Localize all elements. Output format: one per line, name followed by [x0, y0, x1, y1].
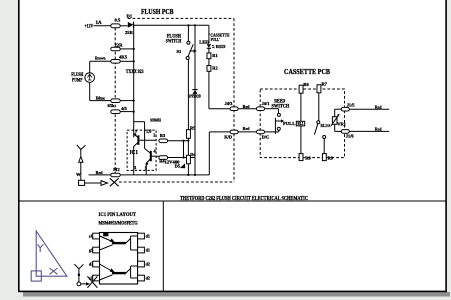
D5 label	[175, 164, 181, 169]
svg-text:D5: D5	[175, 164, 181, 169]
reed switch	[275, 113, 284, 134]
connector oval blue	[90, 99, 134, 103]
IC1 label	[130, 149, 139, 156]
title separator line	[18, 200, 446, 202]
RL1/A label	[321, 123, 332, 128]
VR1	[331, 109, 340, 131]
R9 label	[328, 156, 334, 161]
output wire 1	[349, 108, 389, 110]
FLUSH PUMP label	[71, 73, 83, 84]
svg-text:M2: M2	[113, 167, 119, 172]
resistor R5	[187, 130, 191, 139]
FLUSH PCB label	[141, 8, 174, 16]
svg-text:Red: Red	[375, 126, 382, 131]
bottom collector wire	[120, 174, 209, 176]
svg-text:R3: R3	[160, 133, 166, 138]
connector oval +12V	[111, 24, 120, 28]
svg-text:VR1: VR1	[337, 122, 346, 127]
63k label	[108, 103, 115, 108]
diode D1	[128, 22, 134, 28]
R7 label	[322, 82, 328, 87]
svg-text:R8: R8	[305, 156, 311, 161]
pin 1,6 label	[146, 129, 152, 134]
Brown label	[95, 55, 106, 60]
svg-text:25R: 25R	[125, 30, 134, 35]
ucs icon mid Y axis	[77, 145, 86, 181]
IC pin g1	[89, 247, 100, 253]
branch to transistor2 collector	[134, 122, 145, 149]
IC pin d2 left	[89, 261, 100, 267]
rail below D4	[187, 164, 189, 175]
pin 4 label	[154, 149, 157, 154]
wire +12V feed	[94, 25, 112, 27]
ucs icon mid origin box and X axis	[79, 180, 108, 185]
wire connector to lower rail	[209, 132, 230, 175]
resistor R7	[317, 85, 321, 121]
svg-text:1,6: 1,6	[146, 129, 152, 134]
Red output label 1	[375, 104, 382, 109]
relay contact RL1/A	[314, 121, 325, 154]
svg-text:PUMP: PUMP	[72, 79, 83, 84]
svg-text:CASSETTE PCB: CASSETTE PCB	[284, 68, 330, 76]
svg-text:d1: d1	[146, 248, 150, 253]
D/C label	[262, 135, 270, 140]
svg-text:d2: d2	[146, 262, 150, 267]
svg-text:1A: 1A	[96, 21, 103, 26]
12V400 label	[165, 159, 181, 164]
svg-text:K/D: K/D	[224, 135, 232, 140]
MSM4953 label	[150, 118, 161, 123]
svg-text:R6: R6	[303, 82, 309, 87]
transistor Q1	[134, 133, 156, 175]
J1/5 label	[347, 103, 356, 108]
pin 5 label	[145, 166, 148, 171]
Red wire label top	[243, 104, 250, 109]
svg-text:g1: g1	[89, 248, 93, 253]
D4 label	[190, 152, 196, 157]
title block divider	[162, 201, 164, 291]
connector oval 4/5	[111, 110, 134, 114]
svg-text:d1: d1	[146, 234, 150, 239]
diode rail B	[194, 25, 196, 89]
FLUSH SWITCH label	[166, 35, 182, 45]
connector J 0.5 label	[115, 17, 121, 22]
J4/3 label	[225, 101, 234, 106]
output connector oval 2	[335, 130, 350, 134]
pin 3 label	[134, 165, 137, 170]
Blue label	[96, 95, 105, 100]
svg-text:63k: 63k	[108, 103, 115, 108]
connector oval red	[89, 173, 121, 177]
connector oval brown	[90, 60, 134, 64]
svg-text:D/C: D/C	[262, 135, 270, 140]
Red output label 2	[375, 126, 382, 131]
J4/1 label	[262, 101, 270, 106]
LED label	[199, 39, 209, 44]
svg-text:FLUSH PCB: FLUSH PCB	[141, 8, 174, 16]
connector oval K/D	[230, 130, 238, 134]
left rail	[133, 25, 135, 137]
1A label	[96, 21, 103, 26]
connector oval J4/1	[257, 107, 265, 111]
R3 label	[160, 133, 166, 138]
IC1 dashed box	[127, 130, 156, 170]
K/D label	[224, 135, 232, 140]
svg-text:R2: R2	[212, 65, 217, 70]
svg-text:Red: Red	[243, 126, 250, 131]
M2 label	[113, 167, 119, 172]
TXXX 923 label	[126, 70, 144, 75]
svg-text:D1: D1	[127, 13, 133, 18]
svg-text:FULL': FULL'	[211, 37, 220, 42]
svg-text:Red: Red	[375, 104, 382, 109]
connector oval D/C	[257, 130, 265, 134]
R6 label	[303, 82, 309, 87]
ucs icon bottom X mark	[87, 276, 97, 288]
4K5 label	[119, 54, 128, 59]
output connector oval 1	[335, 107, 350, 111]
svg-text:TXXX 923: TXXX 923	[126, 70, 144, 75]
svg-text:RL1/A: RL1/A	[321, 123, 332, 128]
mosfet M2 internal	[100, 264, 138, 280]
svg-text:THETFORD C262 FLUSH CIRCUIT EL: THETFORD C262 FLUSH CIRCUIT ELECTRICAL S…	[180, 195, 308, 202]
svg-text:d2: d2	[89, 262, 93, 267]
wire to reed switch	[265, 109, 279, 114]
CASSETTE PCB label	[284, 68, 330, 76]
resistor R8	[299, 154, 303, 161]
diode D4 box	[187, 155, 191, 164]
resistor R3	[159, 139, 189, 143]
REED SWITCH label	[272, 100, 290, 110]
ucs icon mid X mark	[110, 178, 119, 186]
svg-text:Brown: Brown	[95, 55, 106, 60]
svg-text:Red: Red	[96, 170, 103, 175]
svg-text:MSM4953: MSM4953	[150, 118, 161, 123]
svg-text:R9: R9	[328, 156, 334, 161]
relay coil RL1	[296, 121, 304, 153]
svg-text:J1/5: J1/5	[347, 103, 356, 108]
svg-text:MSM4953/MOSFETG: MSM4953/MOSFETG	[99, 220, 138, 226]
blue triangle drawing symbol	[31, 231, 67, 281]
J1/6 label	[346, 134, 355, 139]
diode D5	[180, 141, 185, 169]
svg-text:W: W	[76, 172, 81, 177]
RED label	[216, 44, 226, 49]
separator and IC1 pin layout titles	[99, 212, 138, 227]
svg-text:+12V: +12V	[85, 24, 94, 29]
CASSETTE FULL label	[209, 32, 229, 42]
resistor R4 link	[159, 156, 195, 160]
CASSETTE PCB dashed boundary	[260, 89, 344, 158]
4/5 label	[121, 106, 127, 111]
pin 7 label	[135, 130, 138, 135]
Red wire label bottom	[243, 126, 250, 131]
junction dots	[133, 24, 197, 176]
R5 label	[190, 126, 196, 131]
rail B lower	[194, 94, 196, 175]
svg-text:4K5: 4K5	[119, 54, 128, 59]
svg-text:0.5: 0.5	[115, 17, 121, 22]
svg-text:4/5: 4/5	[121, 106, 127, 111]
svg-text:SWITCH: SWITCH	[272, 105, 290, 110]
wire to diode	[120, 25, 127, 27]
FLUSH PCB dashed boundary	[115, 18, 234, 182]
R8 label	[305, 156, 311, 161]
FULL label	[283, 121, 295, 126]
25R label	[125, 30, 134, 35]
svg-text:IC1 PIN LAYOUT: IC1 PIN LAYOUT	[99, 212, 137, 218]
resistor R2	[207, 66, 211, 109]
svg-text:J1/6: J1/6	[346, 134, 355, 139]
1N5819 label	[188, 94, 201, 99]
resistor R9	[322, 154, 326, 161]
S1 label	[177, 49, 183, 54]
output wire 2	[349, 130, 389, 132]
svg-text:RL1: RL1	[298, 122, 304, 126]
ucs icon mid W label	[76, 172, 81, 177]
diode 1N5819	[192, 90, 197, 94]
IC pin s1	[89, 233, 100, 239]
diode D1 label	[127, 13, 133, 18]
rail below R5	[187, 138, 189, 155]
svg-text:J4/1: J4/1	[262, 101, 270, 106]
interconnect wire bottom	[238, 131, 256, 133]
schematic title	[180, 195, 308, 202]
svg-text:R1: R1	[212, 53, 217, 58]
svg-text:R7: R7	[322, 82, 328, 87]
svg-text:LED: LED	[199, 39, 209, 44]
wire to connector J4/3	[209, 108, 230, 110]
svg-text:SWITCH: SWITCH	[166, 40, 182, 45]
mosfet M1 internal	[100, 236, 138, 250]
pin 2 label	[153, 133, 155, 138]
reed to connector wire	[265, 130, 279, 132]
resistor R6	[299, 85, 303, 121]
top supply wire	[134, 24, 209, 26]
svg-text:J4/3: J4/3	[225, 101, 234, 106]
svg-text:FULL: FULL	[283, 121, 295, 126]
LED D2	[207, 44, 215, 53]
svg-text:2: 2	[153, 133, 155, 138]
connector oval J4/3	[230, 107, 238, 111]
switch S1	[186, 41, 197, 59]
svg-text:Blue: Blue	[96, 95, 105, 100]
IC pin d2 right 3	[138, 261, 150, 267]
connector oval 22R	[111, 47, 134, 51]
ucs icon bottom Y axis	[74, 264, 90, 286]
switch rail lower	[187, 59, 189, 129]
svg-text:RED: RED	[216, 44, 226, 49]
R4 label	[159, 159, 165, 164]
interconnect wire top	[238, 108, 256, 110]
IC package body	[100, 233, 138, 285]
svg-text:S1: S1	[177, 49, 183, 54]
IC pin d2 right 4	[138, 275, 150, 281]
LED rail corner	[208, 25, 210, 44]
svg-text:FLUSH: FLUSH	[71, 73, 83, 78]
transistor Q2	[145, 149, 159, 175]
switch rail upper	[187, 25, 189, 41]
R2 label	[212, 65, 217, 70]
22R label	[115, 43, 124, 48]
Red label bottom left	[96, 170, 103, 175]
svg-text:d2: d2	[146, 276, 150, 281]
flush pump motor	[85, 61, 95, 100]
R1 label	[212, 53, 217, 58]
resistor R1	[207, 53, 211, 66]
+12V label	[85, 24, 94, 29]
VR1 label	[337, 122, 346, 127]
IC pin s2	[89, 275, 100, 281]
svg-text:s1: s1	[89, 234, 93, 239]
IC pin d1 right top	[138, 233, 150, 239]
IC pin d1 right 2	[138, 247, 150, 253]
